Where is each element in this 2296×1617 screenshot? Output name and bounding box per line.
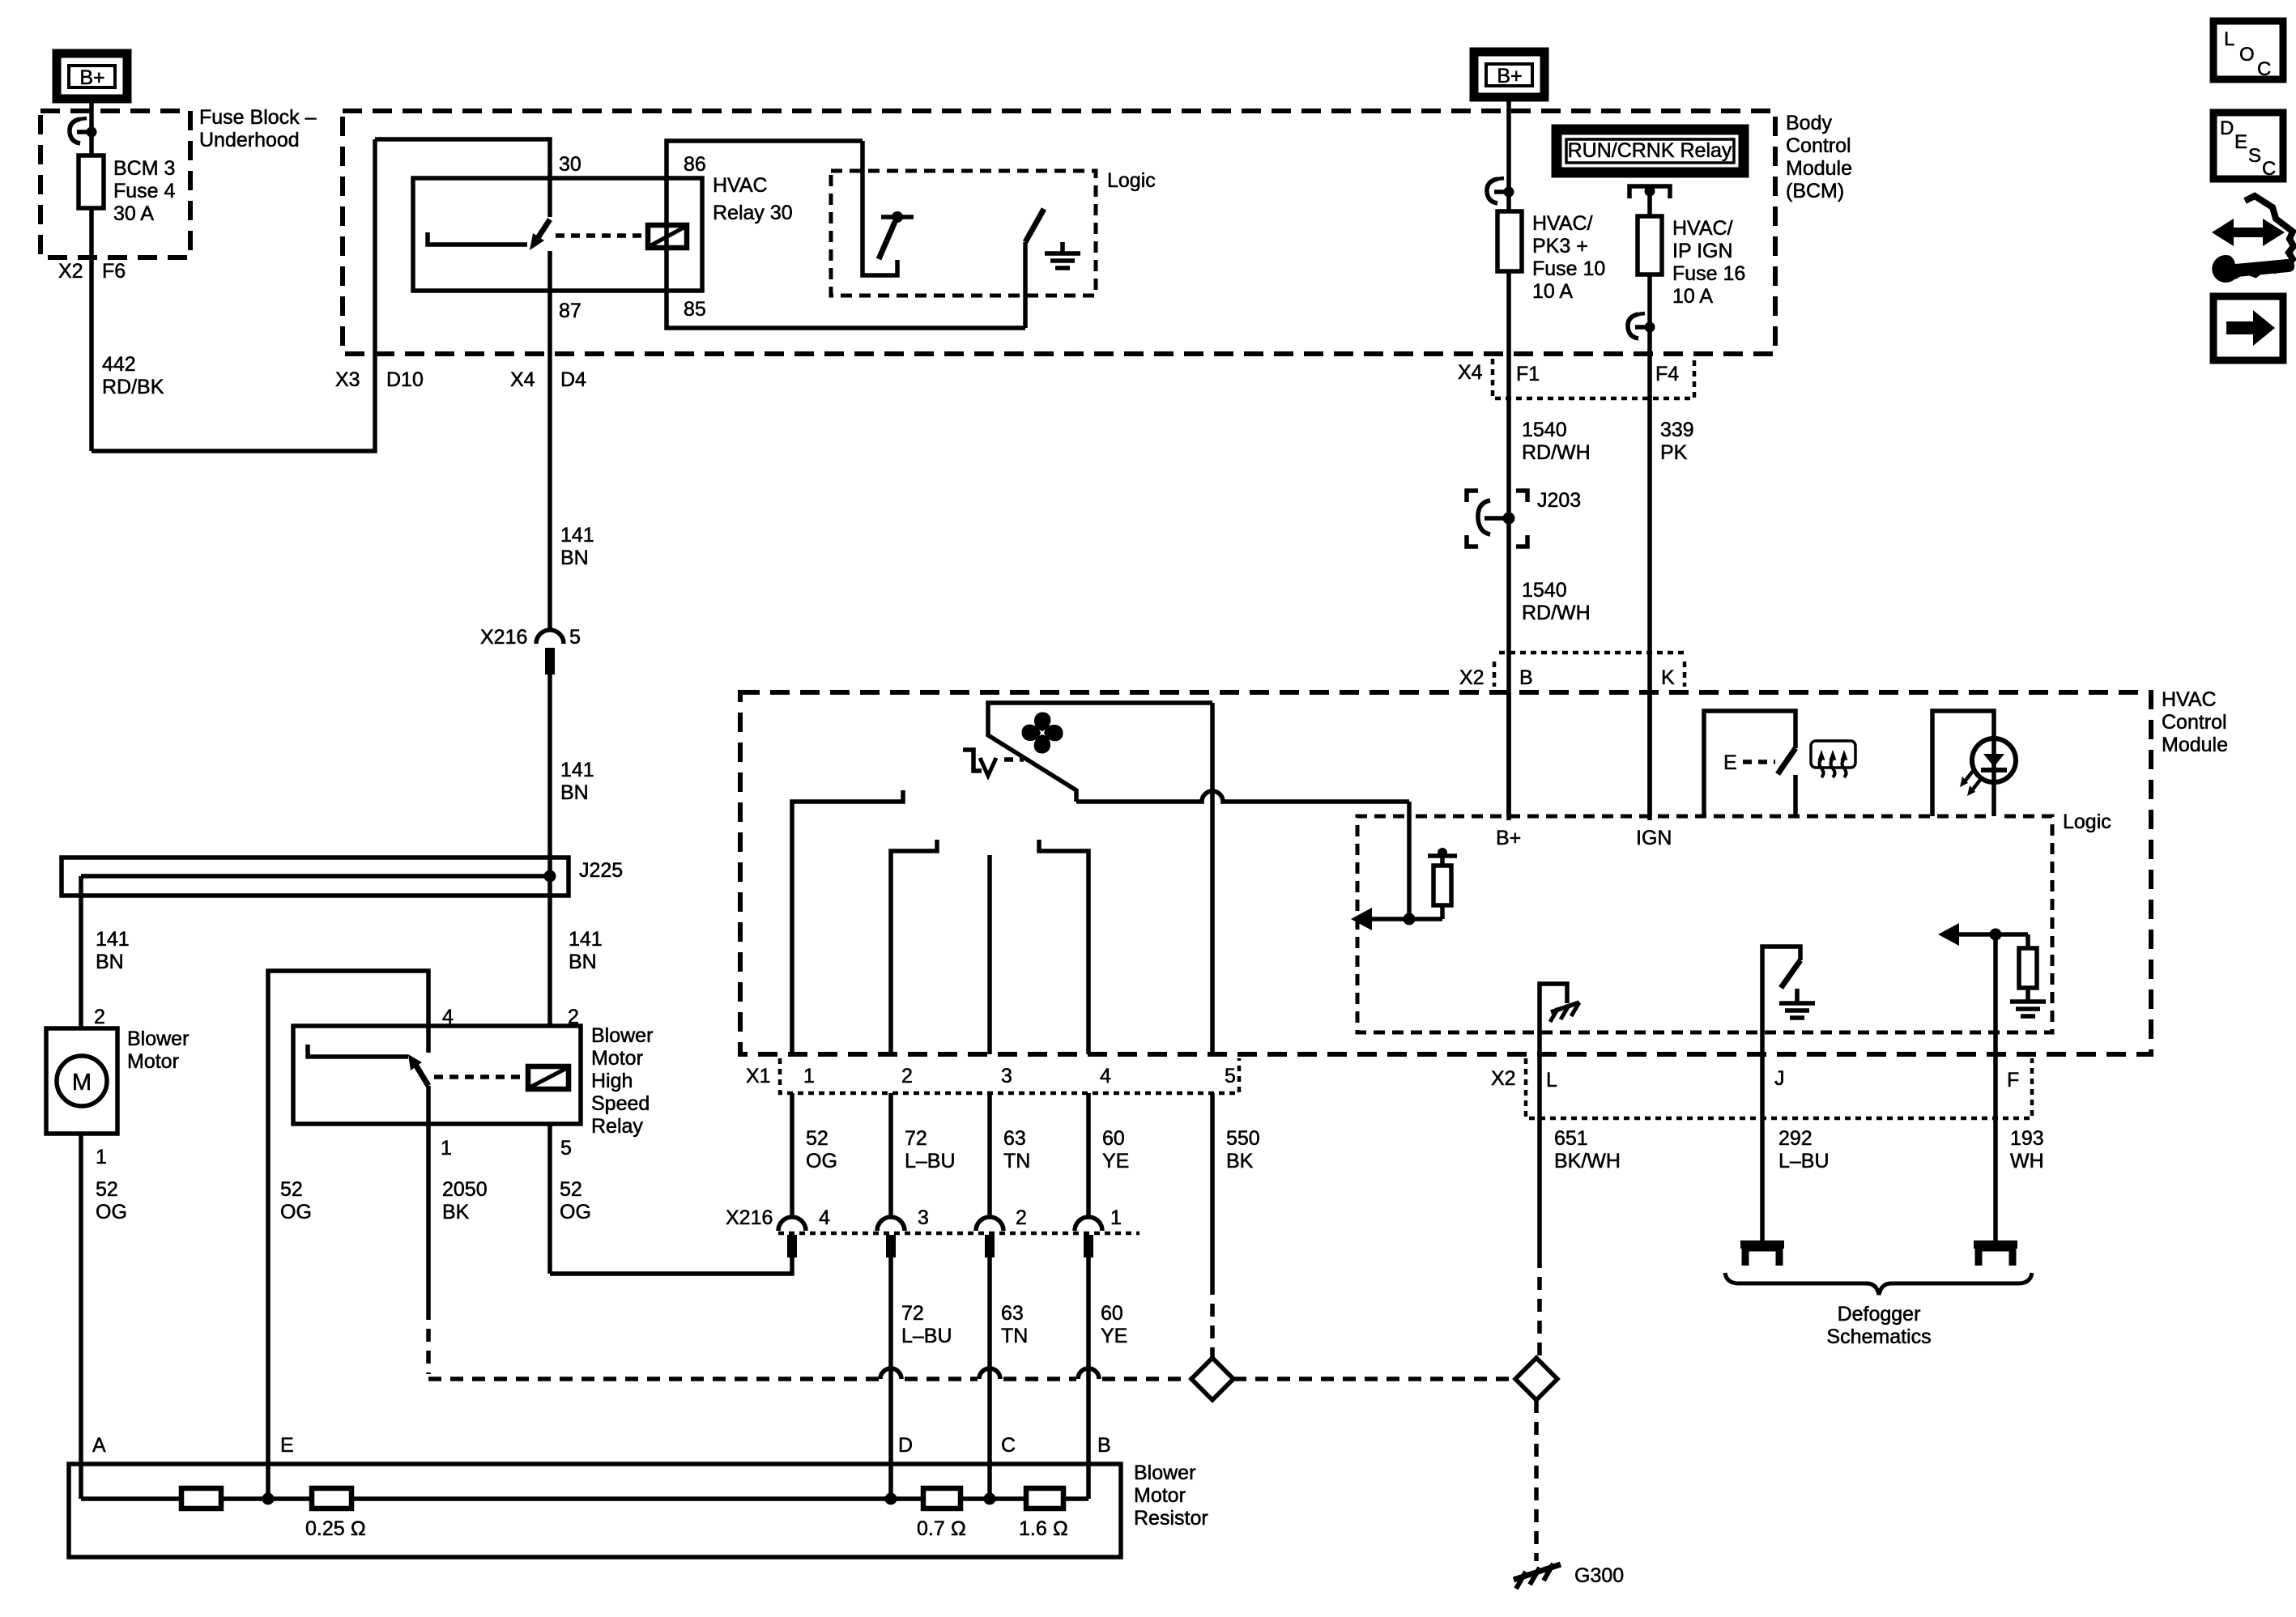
wire label 72 L-BU (lower) <box>901 1302 952 1347</box>
svg-text:BN: BN <box>569 951 597 973</box>
defogger schematics brace <box>1725 1273 2032 1295</box>
svg-text:2: 2 <box>901 1065 913 1087</box>
svg-text:Motor: Motor <box>127 1050 179 1073</box>
relay 30 fixed contact <box>428 232 527 245</box>
resistor element (A-E) <box>181 1488 221 1508</box>
Fuse Block - Underhood dashed box <box>40 111 190 257</box>
svg-text:C: C <box>2262 158 2276 180</box>
svg-text:IP IGN: IP IGN <box>1672 240 1733 262</box>
wire X1-3 to X216-2 <box>987 1093 992 1217</box>
pin 1 blower motor <box>96 1146 107 1168</box>
wire 651 BK/WH pin L <box>1537 1054 1542 1358</box>
svg-text:0.7 Ω: 0.7 Ω <box>917 1517 966 1540</box>
resistor element 0.25 ohm <box>305 1488 366 1540</box>
wire label 339 PK <box>1660 419 1694 464</box>
wire label 63 TN (X1-3) <box>1003 1127 1030 1172</box>
svg-text:HVAC/: HVAC/ <box>1672 217 1733 240</box>
splice diamond 1 (550 BK) <box>1191 1358 1233 1400</box>
pin 2 high speed relay <box>568 1006 579 1028</box>
svg-text:C: C <box>1001 1434 1016 1457</box>
svg-text:E: E <box>1723 751 1737 774</box>
junction dot C <box>984 1493 996 1505</box>
wire label 442 RD/BK <box>102 353 164 398</box>
pin 1 high speed relay <box>441 1137 452 1160</box>
wire 2050 BK from relay pin 1 <box>426 1086 431 1374</box>
wire label 651 BK/WH <box>1554 1127 1621 1172</box>
svg-text:X216: X216 <box>480 626 527 649</box>
svg-text:72: 72 <box>901 1302 924 1325</box>
svg-text:YE: YE <box>1101 1325 1127 1347</box>
HVAC Control Module dashed box <box>740 692 2151 1054</box>
splice J203 <box>1467 489 1581 547</box>
svg-text:141: 141 <box>569 928 603 951</box>
svg-text:G300: G300 <box>1574 1564 1624 1587</box>
svg-text:BN: BN <box>560 547 589 569</box>
underhood fuse block / BCM outer dashed box <box>343 111 1775 354</box>
pin B+ into logic <box>1496 692 1521 849</box>
wire pin 85 into logic ground switch <box>1023 242 1028 328</box>
svg-text:Blower: Blower <box>591 1024 653 1047</box>
earth ground below F resistor <box>2010 1002 2046 1016</box>
svg-text:4: 4 <box>819 1206 830 1229</box>
rear defog switch loop <box>1704 711 1795 816</box>
svg-text:L–BU: L–BU <box>901 1325 952 1347</box>
svg-text:OG: OG <box>96 1201 127 1223</box>
wire 52 OG motor to resistor A <box>79 1134 83 1499</box>
wire pin 86 into logic driver <box>863 141 897 275</box>
label HVAC/ IP IGN Fuse 16 10 A <box>1672 217 1745 308</box>
svg-text:L–BU: L–BU <box>1778 1150 1830 1172</box>
svg-text:86: 86 <box>684 153 706 176</box>
wire X216-4 jog to high speed relay pin 5 <box>550 1257 792 1274</box>
svg-text:PK: PK <box>1660 441 1688 464</box>
wire pin 5 from switch top <box>1210 703 1215 1054</box>
svg-text:5: 5 <box>569 626 581 649</box>
connector clip at fuse block feed <box>70 118 97 143</box>
connector X216 row <box>726 1206 1139 1233</box>
svg-text:550: 550 <box>1226 1127 1260 1150</box>
svg-text:651: 651 <box>1554 1127 1588 1150</box>
wire label 292 L-BU <box>1778 1127 1830 1172</box>
svg-text:B+: B+ <box>1496 827 1521 849</box>
pin label 30 <box>559 153 581 176</box>
fuse HVAC/IP IGN Fuse 16 10A <box>1638 191 1662 274</box>
junction dot D <box>885 1493 897 1505</box>
high speed relay fixed contact <box>308 1045 408 1057</box>
svg-text:OG: OG <box>280 1201 312 1223</box>
svg-text:J: J <box>1774 1067 1785 1090</box>
svg-text:1: 1 <box>441 1137 452 1160</box>
svg-text:J225: J225 <box>579 859 623 882</box>
wire label 52 OG (coil E) <box>280 1178 312 1223</box>
wire fuse 16 down to X4-F4 <box>1647 274 1652 820</box>
svg-text:HVAC/: HVAC/ <box>1532 212 1593 235</box>
splice diamond 2 (G300) <box>1515 1358 1557 1400</box>
wire coil loop to pin 4 <box>268 971 428 1499</box>
svg-text:BK: BK <box>442 1201 470 1223</box>
wire X1-2 to X216-3 <box>888 1093 893 1217</box>
wire 141 BN J225 to blower motor <box>79 876 83 1028</box>
svg-text:F6: F6 <box>102 260 126 283</box>
svg-text:BK: BK <box>1226 1150 1254 1172</box>
defogger terminal J <box>1740 1245 1784 1266</box>
label Body Control Module (BCM) <box>1786 112 1852 202</box>
svg-text:RUN/CRNK Relay: RUN/CRNK Relay <box>1568 139 1732 162</box>
svg-text:63: 63 <box>1003 1127 1026 1150</box>
switch contact 4 <box>1039 840 1088 1054</box>
HVAC logic dashed box <box>1357 816 2052 1032</box>
connector X4 row (F1 F4) <box>1458 359 1694 398</box>
wire X1-5 550 BK <box>1210 1093 1215 1359</box>
connector labels X3 D10 X4 D4 <box>335 368 586 391</box>
label HVAC/ PK3 + Fuse 10 10 A <box>1532 212 1605 303</box>
svg-text:RD/WH: RD/WH <box>1522 602 1591 624</box>
svg-text:OG: OG <box>560 1201 591 1223</box>
sidebar icon double arrow <box>2212 219 2285 246</box>
svg-text:A: A <box>92 1434 106 1457</box>
svg-text:141: 141 <box>96 928 130 951</box>
feedback arrow and pull-up resistor <box>1351 848 1457 930</box>
svg-text:87: 87 <box>559 300 581 322</box>
svg-text:10 A: 10 A <box>1532 280 1573 303</box>
svg-text:D4: D4 <box>560 368 586 391</box>
svg-text:L: L <box>2224 28 2234 50</box>
svg-text:X216: X216 <box>726 1206 773 1229</box>
label BCM 3 Fuse 4 30 A <box>113 157 176 225</box>
blower motor resistor box <box>69 1464 1121 1557</box>
svg-text:Blower: Blower <box>1134 1462 1195 1484</box>
svg-text:60: 60 <box>1101 1302 1123 1325</box>
wire label 141 BN (1) <box>560 524 594 569</box>
wire label 60 YE (lower) <box>1101 1302 1127 1347</box>
resistor element 1.6 ohm <box>1019 1488 1068 1540</box>
svg-text:Logic: Logic <box>1107 169 1156 192</box>
svg-text:141: 141 <box>560 759 594 781</box>
connector X1 row <box>746 1058 1239 1093</box>
svg-text:Motor: Motor <box>591 1047 643 1070</box>
wire label 60 YE (X1-4) <box>1102 1127 1129 1172</box>
svg-text:F1: F1 <box>1516 363 1540 385</box>
label Blower Motor High Speed Relay <box>591 1024 653 1138</box>
connector clip on B+ feed <box>1487 178 1514 203</box>
wire label 550 BK (X1-5) <box>1226 1127 1260 1172</box>
svg-text:1540: 1540 <box>1522 579 1567 602</box>
relay 30 body outline (86/85 side) <box>667 141 1025 328</box>
wire B+ down to fuse F6 <box>89 99 94 451</box>
wire 52 OG relay pin 5 down <box>547 1124 552 1274</box>
resistor pin letters A E D C B <box>92 1434 1111 1457</box>
svg-text:52: 52 <box>806 1127 829 1150</box>
wire 141 BN from relay pin 87 down <box>547 251 552 630</box>
svg-text:339: 339 <box>1660 419 1694 441</box>
connector X2 row (L J F) <box>1491 1058 2032 1118</box>
wire 141 BN J225 to high speed relay pin 2 <box>547 876 552 1026</box>
svg-text:0.25 Ω: 0.25 Ω <box>305 1517 366 1540</box>
HVAC Relay 30 feed wire to pin 30 <box>375 139 550 217</box>
svg-text:Relay 30: Relay 30 <box>713 202 793 224</box>
svg-text:442: 442 <box>102 353 136 376</box>
svg-text:Fuse Block –: Fuse Block – <box>199 106 317 129</box>
svg-text:BN: BN <box>96 951 124 973</box>
svg-text:D10: D10 <box>386 368 424 391</box>
junction dot E <box>262 1493 275 1505</box>
wire label 193 WH <box>2010 1127 2044 1172</box>
sidebar icon LOC <box>2213 21 2283 80</box>
wire label 52 OG (relay 5) <box>560 1178 591 1223</box>
svg-text:Speed: Speed <box>591 1092 650 1115</box>
svg-text:2: 2 <box>94 1006 105 1028</box>
blower switch control glyph <box>963 750 1024 776</box>
svg-text:RD/BK: RD/BK <box>102 376 164 398</box>
svg-text:Control: Control <box>1786 134 1851 157</box>
defog sense branch (pin F) <box>1938 923 2037 1002</box>
svg-text:193: 193 <box>2010 1127 2044 1150</box>
svg-text:X2: X2 <box>1459 666 1485 689</box>
svg-text:63: 63 <box>1001 1302 1024 1325</box>
svg-text:IGN: IGN <box>1636 827 1672 849</box>
svg-text:D: D <box>2220 117 2234 139</box>
wire X1-4 to X216-1 <box>1086 1093 1091 1217</box>
svg-text:1: 1 <box>96 1146 107 1168</box>
svg-text:X2: X2 <box>1491 1067 1516 1090</box>
defog output switch (pin J) <box>1762 947 1800 1054</box>
svg-text:Blower: Blower <box>127 1028 189 1050</box>
svg-text:TN: TN <box>1001 1325 1028 1347</box>
svg-text:Logic: Logic <box>2063 811 2111 833</box>
wire X216-1 down to resistor B <box>1086 1257 1091 1499</box>
wire fuse 10 down to X4-F1 <box>1506 271 1511 820</box>
svg-text:X4: X4 <box>510 368 535 391</box>
wire 442 RD/BK routing to relay pin 30 <box>92 139 375 451</box>
pin 2 blower motor <box>94 1006 105 1028</box>
pin 5 high speed relay <box>560 1137 572 1160</box>
blower switch body <box>988 703 1212 802</box>
svg-text:HVAC: HVAC <box>713 174 768 197</box>
svg-text:52: 52 <box>560 1178 582 1201</box>
wire label 141 BN (relay side) <box>569 928 603 973</box>
svg-text:(BCM): (BCM) <box>1786 180 1844 202</box>
svg-text:5: 5 <box>560 1137 572 1160</box>
label Logic (HVAC) <box>2063 811 2111 833</box>
splice bar J225 <box>62 857 623 896</box>
svg-text:1.6 Ω: 1.6 Ω <box>1019 1517 1068 1540</box>
wire X216-3 down to resistor D <box>888 1257 893 1499</box>
svg-text:1540: 1540 <box>1522 419 1567 441</box>
svg-text:BN: BN <box>560 781 589 804</box>
svg-text:OG: OG <box>806 1150 837 1172</box>
wire label 63 TN (lower) <box>1001 1302 1028 1347</box>
pin IGN into logic <box>1636 692 1672 849</box>
defogger terminal F <box>1974 1245 2017 1266</box>
X216 pin 4 terminal <box>778 1217 806 1257</box>
svg-text:X2: X2 <box>58 260 83 283</box>
svg-text:5: 5 <box>1225 1065 1236 1087</box>
switch contact 1 <box>792 790 903 1054</box>
wire 141 BN from X216-5 to J225 <box>547 674 552 876</box>
svg-text:BCM 3: BCM 3 <box>113 157 175 180</box>
wire label 1540 RD/WH (lower) <box>1522 579 1591 624</box>
sidebar icon wrench <box>2212 255 2294 283</box>
battery feed B+ (left) <box>57 53 127 99</box>
X216 pin 2 terminal <box>976 1217 1003 1257</box>
wire label 2050 BK <box>442 1178 488 1223</box>
svg-text:Fuse 16: Fuse 16 <box>1672 262 1745 285</box>
blower switch output line with crossover hop <box>1076 791 1409 802</box>
svg-text:B+: B+ <box>79 66 104 89</box>
X216 pin 1 terminal <box>1075 1217 1102 1257</box>
svg-text:WH: WH <box>2010 1150 2044 1172</box>
blower motor <box>46 1028 117 1134</box>
svg-text:10 A: 10 A <box>1672 285 1713 308</box>
label Blower Motor Resistor <box>1134 1462 1208 1530</box>
resistor element 0.7 ohm <box>917 1488 966 1540</box>
wire X216-2 down to resistor C <box>987 1257 992 1499</box>
svg-text:Fuse 4: Fuse 4 <box>113 180 176 202</box>
svg-text:60: 60 <box>1102 1127 1125 1150</box>
svg-text:30 A: 30 A <box>113 202 154 225</box>
svg-text:BK/WH: BK/WH <box>1554 1150 1621 1172</box>
wire label 141 BN (motor side) <box>96 928 130 973</box>
label HVAC Control Module <box>2162 688 2228 756</box>
svg-text:Underhood: Underhood <box>199 129 300 151</box>
svg-text:O: O <box>2239 44 2255 66</box>
wire label 52 OG (X1-1) <box>806 1127 837 1172</box>
wire B+ to fuse 10 <box>1506 97 1511 211</box>
fan icon <box>1021 712 1063 753</box>
svg-text:52: 52 <box>280 1178 303 1201</box>
blower ground switch (pin L) <box>1540 984 1567 1054</box>
svg-text:J203: J203 <box>1537 489 1581 512</box>
svg-text:85: 85 <box>684 298 706 321</box>
earth ground below J switch <box>1779 989 1815 1018</box>
sidebar icon diagnostic outline <box>2227 196 2294 275</box>
high speed relay movable arm <box>408 1054 428 1086</box>
svg-text:B: B <box>1097 1434 1111 1457</box>
svg-text:S: S <box>2248 145 2261 167</box>
dashed crossover bus to splice diamonds <box>428 1368 1191 1379</box>
svg-text:F4: F4 <box>1655 363 1679 385</box>
svg-text:Module: Module <box>2162 734 2228 756</box>
HVAC Relay 30 contact box <box>413 178 702 291</box>
svg-text:M: M <box>72 1070 92 1096</box>
svg-text:3: 3 <box>1001 1065 1012 1087</box>
pin 4 high speed relay <box>442 1006 454 1028</box>
svg-text:YE: YE <box>1102 1150 1129 1172</box>
svg-text:F: F <box>2007 1069 2019 1091</box>
svg-text:Motor: Motor <box>1134 1484 1186 1507</box>
switch contact 2 <box>891 840 937 1054</box>
battery feed B+ (right) <box>1474 52 1544 97</box>
svg-text:K: K <box>1661 666 1675 689</box>
svg-text:1: 1 <box>803 1065 815 1087</box>
svg-text:30: 30 <box>559 153 581 176</box>
svg-text:L–BU: L–BU <box>905 1150 956 1172</box>
fuse HVAC/PK3 + Fuse 10 10A <box>1497 211 1522 271</box>
svg-text:1: 1 <box>1110 1206 1122 1229</box>
svg-text:B+: B+ <box>1497 65 1522 87</box>
blower motor high speed relay box <box>293 1026 581 1124</box>
svg-text:72: 72 <box>905 1127 927 1150</box>
wire label 72 L-BU (X1-2) <box>905 1127 956 1172</box>
svg-text:3: 3 <box>918 1206 929 1229</box>
label Defogger Schematics <box>1826 1303 1931 1348</box>
label Logic (BCM) <box>1107 169 1156 192</box>
svg-text:RD/WH: RD/WH <box>1522 441 1591 464</box>
svg-text:X4: X4 <box>1458 361 1483 384</box>
high speed relay coil <box>528 1066 569 1089</box>
earth ground in logic box <box>1045 242 1080 268</box>
wire label 141 BN (2) <box>560 759 594 804</box>
blower feedback branch: wire into logic <box>1407 802 1412 919</box>
logic driver switch 1 <box>879 211 914 259</box>
connector clip below fuse 16 <box>1628 313 1655 338</box>
svg-text:B: B <box>1519 666 1533 689</box>
label E with link dashes <box>1723 751 1775 774</box>
connector X216 pin 5 <box>480 626 581 674</box>
svg-text:L: L <box>1546 1069 1557 1091</box>
svg-text:Resistor: Resistor <box>1134 1507 1208 1530</box>
svg-text:Defogger: Defogger <box>1838 1303 1921 1326</box>
svg-text:X3: X3 <box>335 368 360 391</box>
svg-text:Module: Module <box>1786 157 1852 180</box>
svg-text:52: 52 <box>96 1178 118 1201</box>
relay 30 coil <box>648 225 687 248</box>
svg-text:Relay: Relay <box>591 1115 643 1138</box>
svg-text:E: E <box>2234 131 2247 153</box>
svg-text:2: 2 <box>1016 1206 1027 1229</box>
pin label 87 <box>559 300 581 322</box>
fuse BCM 3 Fuse 4 30A <box>79 155 104 208</box>
svg-text:PK3 +: PK3 + <box>1532 235 1588 257</box>
RUN/CRNK Relay block <box>1557 130 1744 172</box>
label Blower Motor <box>127 1028 189 1073</box>
ground G300 <box>1514 1564 1624 1589</box>
wire X1-1 to X216-4 <box>790 1093 794 1217</box>
svg-text:141: 141 <box>560 524 594 547</box>
wire label 1540 RD/WH (upper) <box>1522 419 1591 464</box>
svg-text:Schematics: Schematics <box>1826 1326 1931 1348</box>
relay output terminal bracket <box>1629 186 1670 199</box>
switch contact 3 <box>987 855 992 1054</box>
pin label 85 <box>684 298 706 321</box>
sidebar icon DESC <box>2213 113 2283 180</box>
svg-text:TN: TN <box>1003 1150 1030 1172</box>
dashed bus between diamonds <box>1233 1377 1515 1381</box>
svg-text:High: High <box>591 1070 633 1092</box>
svg-text:Control: Control <box>2162 711 2227 734</box>
pin label 86 <box>684 153 706 176</box>
svg-text:D: D <box>898 1434 913 1457</box>
logic dashed box (relay drivers) <box>831 171 1096 296</box>
wire pin F down <box>1993 934 1998 1054</box>
wire 292 L-BU pin J <box>1760 1054 1765 1244</box>
LED symbol <box>1960 738 2016 796</box>
svg-text:4: 4 <box>1100 1065 1111 1087</box>
label HVAC Relay 30 <box>713 174 793 224</box>
svg-text:C: C <box>2257 58 2271 80</box>
svg-text:292: 292 <box>1778 1127 1813 1150</box>
svg-text:HVAC: HVAC <box>2162 688 2217 711</box>
resistor internal bus <box>81 1496 1088 1501</box>
svg-text:Body: Body <box>1786 112 1832 134</box>
connector pin labels X2 F6 <box>58 260 126 283</box>
LED indicator loop <box>1932 711 1994 816</box>
dashed wire to G300 <box>1534 1400 1539 1561</box>
heated rear window icon <box>1811 741 1855 777</box>
logic driver switch 2 <box>1025 209 1044 242</box>
sidebar icon forward arrow <box>2213 296 2283 360</box>
chassis ground symbol <box>1550 1002 1579 1022</box>
